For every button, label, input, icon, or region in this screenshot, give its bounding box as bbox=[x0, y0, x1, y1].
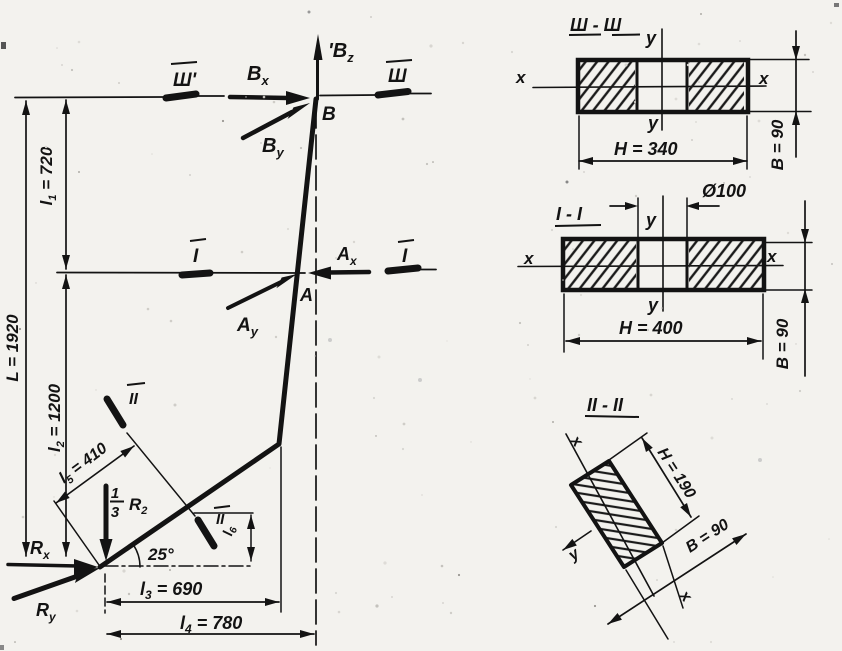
svg-text:y: y bbox=[647, 113, 659, 133]
svg-text:II: II bbox=[216, 511, 225, 528]
svg-text:x: x bbox=[766, 247, 778, 266]
svg-text:II - II: II - II bbox=[587, 395, 624, 415]
svg-text:B: B bbox=[322, 104, 336, 125]
svg-text:B = 90: B = 90 bbox=[773, 318, 792, 369]
svg-text:H = 340: H = 340 bbox=[614, 139, 678, 159]
svg-text:Ш': Ш' bbox=[173, 70, 198, 91]
svg-text:x: x bbox=[758, 69, 770, 88]
svg-text:A: A bbox=[299, 285, 313, 305]
svg-text:II: II bbox=[129, 391, 138, 408]
svg-text:H = 400: H = 400 bbox=[619, 318, 683, 338]
svg-text:y: y bbox=[645, 210, 657, 230]
svg-text:L = 1920: L = 1920 bbox=[3, 314, 22, 382]
svg-text:Ш: Ш bbox=[388, 66, 407, 87]
svg-text:B = 90: B = 90 bbox=[768, 119, 787, 170]
svg-text:1: 1 bbox=[111, 485, 119, 502]
svg-text:3: 3 bbox=[111, 504, 120, 521]
svg-text:Ш - Ш: Ш - Ш bbox=[570, 15, 622, 35]
svg-text:25°: 25° bbox=[147, 545, 174, 564]
svg-text:I: I bbox=[193, 246, 199, 267]
svg-text:x: x bbox=[515, 68, 527, 87]
svg-text:I: I bbox=[402, 246, 408, 267]
svg-text:l2 = 1200: l2 = 1200 bbox=[45, 383, 67, 452]
svg-text:Ø100: Ø100 bbox=[702, 181, 746, 201]
svg-text:I - I: I - I bbox=[556, 204, 583, 224]
svg-text:y: y bbox=[645, 28, 657, 48]
svg-text:y: y bbox=[647, 295, 659, 315]
svg-text:x: x bbox=[523, 249, 535, 268]
